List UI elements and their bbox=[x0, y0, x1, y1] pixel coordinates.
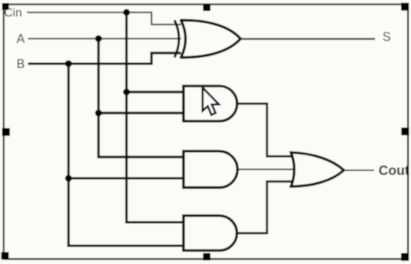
handle right-middle bbox=[401, 128, 409, 136]
wire Cin horizontal bbox=[27, 12, 181, 24]
svg-text:B: B bbox=[17, 57, 25, 71]
handle bottom-left bbox=[1, 252, 9, 260]
wire branch B to AND2 bottom input bbox=[69, 177, 185, 179]
handle top-left bbox=[2, 3, 9, 10]
xor gate U1 body bbox=[181, 20, 241, 57]
node junction on A line bbox=[95, 35, 102, 42]
wire B horizontal bbox=[28, 53, 181, 64]
node junction on B line bbox=[65, 60, 72, 67]
wire AND1 output to OR top input bbox=[237, 104, 293, 157]
wire B vertical bbox=[69, 64, 185, 246]
handle top-middle bbox=[203, 4, 211, 12]
wire branch A to AND1 bottom input bbox=[99, 112, 185, 114]
node junction Cin vertical / AND1 top bbox=[123, 89, 130, 96]
wire S output bbox=[241, 38, 376, 40]
handle left-middle bbox=[2, 128, 10, 136]
svg-text:S: S bbox=[383, 30, 391, 44]
wire AND2 output to OR middle input bbox=[237, 168, 296, 170]
mouse cursor bbox=[203, 88, 219, 115]
handle bottom-right bbox=[401, 253, 409, 261]
svg-text:Cout: Cout bbox=[379, 163, 410, 178]
wire AND3 output to OR bottom input bbox=[237, 182, 293, 234]
handle top-right bbox=[401, 3, 409, 11]
wire branch Cin to AND1 top input bbox=[127, 91, 185, 93]
and gate U4 (bottom) bbox=[184, 216, 237, 251]
or gate U5 bbox=[291, 153, 344, 187]
handle bottom-middle bbox=[203, 253, 211, 261]
wire Cout output bbox=[344, 169, 374, 171]
node junction A vertical / AND1 bottom bbox=[95, 110, 102, 117]
node junction B vertical / AND2 bottom bbox=[65, 175, 72, 182]
node junction on Cin line bbox=[123, 9, 130, 16]
wire Cin vertical bbox=[127, 12, 185, 222]
wire A horizontal bbox=[28, 38, 181, 40]
svg-text:A: A bbox=[17, 32, 26, 46]
and gate U3 (middle) bbox=[184, 151, 238, 187]
wire A vertical bbox=[99, 39, 185, 157]
and gate U2 (top) bbox=[184, 86, 238, 121]
xor gate U1 input arc bbox=[175, 20, 180, 57]
